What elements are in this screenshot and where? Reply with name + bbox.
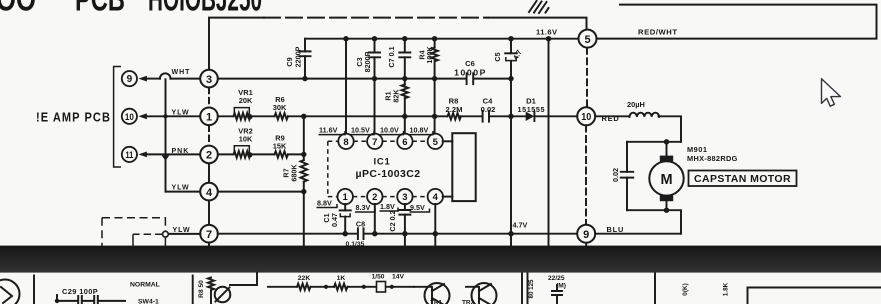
svg-text:NORMAL: NORMAL	[130, 282, 160, 289]
capacitor 1/50	[372, 274, 405, 293]
potentiometer VR1 20K	[234, 88, 253, 120]
svg-text:C7 0.1: C7 0.1	[387, 46, 396, 67]
capacitor C5 4.7	[493, 39, 524, 246]
resistor R9 15K	[273, 134, 288, 158]
svg-text:2.2M: 2.2M	[446, 105, 463, 114]
svg-text:1: 1	[343, 192, 349, 203]
wire to upper section	[230, 273, 257, 285]
wire: node-4 YLW stub	[166, 184, 201, 191]
svg-text:7: 7	[372, 137, 377, 148]
wire YLW node1	[138, 109, 200, 119]
svg-text:100K: 100K	[425, 46, 434, 64]
svg-text:8.8V: 8.8V	[317, 199, 332, 208]
wire BLU to motor	[595, 233, 681, 235]
connector circle 11 (amp pcb)	[122, 147, 137, 162]
continuation hatch marks	[529, 1, 549, 13]
svg-text:8: 8	[343, 137, 348, 148]
svg-text:MHX-882RDG: MHX-882RDG	[687, 154, 738, 163]
wire verticals with cap 22/25	[522, 274, 566, 304]
svg-text:0.02: 0.02	[611, 168, 620, 182]
svg-text:7: 7	[206, 229, 212, 241]
resistor 1K	[334, 275, 348, 290]
wire: main column segments	[208, 88, 210, 145]
capacitor C8 0.1/35	[346, 220, 366, 248]
svg-text:3: 3	[402, 192, 407, 203]
svg-text:SW4-1: SW4-1	[138, 299, 159, 304]
svg-text:YLW: YLW	[172, 109, 190, 116]
transistor TR-B	[466, 283, 497, 304]
svg-text:1.8K: 1.8K	[723, 282, 730, 296]
capacitor C1 0.47	[322, 204, 351, 234]
svg-text:4: 4	[433, 192, 439, 203]
svg-text:15K: 15K	[273, 142, 287, 151]
svg-text:2: 2	[372, 192, 377, 203]
node circle 5 (motor conn)	[579, 30, 597, 48]
svg-text:1.8V: 1.8V	[380, 202, 395, 211]
svg-text:2: 2	[206, 150, 212, 162]
svg-text:10.0V: 10.0V	[380, 126, 399, 135]
svg-text:!E AMP PCB: !E AMP PCB	[36, 111, 111, 125]
resistor R8 50 (trimmer)	[198, 278, 230, 304]
wire terminal to node 7	[169, 233, 201, 235]
wire: top dashed feed line to node 5	[209, 18, 587, 70]
svg-text:µPC-1003C2: µPC-1003C2	[356, 168, 421, 180]
transistor TR-A	[414, 283, 450, 304]
svg-text:151555: 151555	[518, 105, 545, 114]
IC pin 3	[397, 189, 412, 204]
resistor R8 2.2M	[446, 97, 463, 120]
svg-text:9.5V: 9.5V	[410, 203, 425, 212]
dashed connector column 5-10	[586, 48, 588, 107]
wire pin4 down into lower section	[434, 204, 436, 246]
wire: node-1 horizontal line	[218, 115, 577, 117]
node circle 2	[200, 146, 218, 164]
svg-text:TR1: TR1	[430, 300, 443, 304]
svg-text:22/25: 22/25	[548, 275, 565, 282]
svg-text:4.7V: 4.7V	[513, 221, 528, 230]
svg-text:PNK: PNK	[172, 148, 190, 155]
wire motor top rail	[627, 141, 681, 143]
svg-text:1K: 1K	[337, 275, 346, 282]
wire motor bottom rail	[627, 210, 681, 234]
voltage label 10.8V pin5	[409, 126, 433, 135]
svg-text:1/50: 1/50	[372, 274, 385, 281]
svg-text:BLU: BLU	[607, 225, 625, 234]
svg-text:TR2: TR2	[462, 300, 475, 304]
wire pin5 to box	[443, 140, 453, 142]
svg-text:9: 9	[583, 229, 589, 241]
capacitor C2 0.2	[388, 204, 410, 246]
svg-text:9: 9	[127, 74, 133, 85]
node circle 3	[200, 70, 218, 88]
wire vertical	[33, 276, 35, 304]
wire RED/WHT to right edge	[597, 5, 877, 39]
svg-text:10: 10	[125, 112, 134, 122]
svg-text:14V: 14V	[392, 274, 405, 281]
inductor 20uH	[595, 100, 681, 142]
wire: YLW vertical tie	[165, 79, 167, 191]
voltage label 9.5V pin4	[410, 203, 430, 212]
node circle 4	[200, 183, 218, 201]
svg-text:10K: 10K	[239, 135, 253, 144]
svg-text:30K: 30K	[273, 103, 287, 112]
IC pin 6	[397, 134, 412, 149]
wire pin4 to box	[443, 196, 453, 198]
capacitor C7 0.1	[387, 39, 410, 85]
capacitor C3 8200P	[355, 39, 380, 134]
svg-text:680K: 680K	[290, 164, 299, 182]
capacitor C6 1000P	[454, 59, 487, 84]
svg-text:2200P: 2200P	[294, 46, 303, 67]
wire vertical	[192, 276, 194, 304]
svg-text:4: 4	[206, 187, 213, 199]
junction dots on bus	[343, 36, 551, 41]
svg-text:22K: 22K	[298, 275, 311, 282]
node circle 9 (motor conn)	[577, 225, 595, 243]
svg-text:WHT: WHT	[172, 69, 191, 76]
voltage label 8.8V pin1	[317, 199, 338, 208]
voltage label 10.0V pin6	[380, 126, 404, 135]
svg-text:HOIOBJ250: HOIOBJ250	[148, 0, 262, 19]
resistor R4 100K	[418, 39, 438, 134]
IC pin 1	[338, 189, 353, 204]
wire: node-4 line to R7 foot	[218, 191, 304, 193]
voltage label 1.8V pin3	[380, 202, 399, 211]
node circle 7	[200, 225, 218, 243]
node circle 10 (motor conn)	[577, 107, 595, 125]
svg-text:5: 5	[433, 137, 439, 148]
node circle 1	[200, 108, 218, 126]
svg-text:10.8V: 10.8V	[410, 126, 429, 135]
svg-text:5: 5	[584, 34, 590, 46]
IC pin 5	[428, 134, 443, 149]
IC pin 4	[428, 189, 443, 204]
svg-text:C8: C8	[356, 220, 365, 229]
svg-text:10.5V: 10.5V	[351, 126, 370, 135]
svg-text:8200P: 8200P	[363, 51, 372, 72]
svg-text:0(K): 0(K)	[682, 283, 689, 295]
wire: node-2 horizontal line	[218, 153, 304, 155]
svg-text:M: M	[660, 172, 672, 188]
svg-text:C29 100P: C29 100P	[62, 287, 98, 296]
svg-text:OO: OO	[0, 0, 36, 19]
svg-text:M901: M901	[687, 145, 708, 154]
diode D1 151555	[518, 97, 545, 122]
svg-text:11: 11	[125, 150, 133, 160]
svg-text:11.6V: 11.6V	[536, 28, 558, 37]
svg-text:11.6V: 11.6V	[319, 126, 338, 135]
left connector bracket	[114, 67, 121, 168]
IC1 dashed boundary	[328, 141, 428, 196]
svg-text:1: 1	[206, 112, 212, 124]
wire WHT with hop	[138, 69, 200, 82]
wire PNK with hop blob	[138, 148, 200, 161]
voltage label 8.3V pin2	[355, 203, 375, 212]
wire: 11.6V rail down into lower section	[548, 39, 550, 246]
label CAPSTAN MOTOR boxed	[689, 171, 797, 187]
svg-text:C5: C5	[493, 52, 502, 61]
wire vertical	[654, 274, 656, 304]
wire: rail from bus down to IC pin 8	[345, 39, 347, 134]
pcb outline box lower right	[748, 288, 881, 304]
svg-text:0.47: 0.47	[330, 213, 339, 227]
resistor R7 680K	[282, 116, 308, 245]
voltage label 10.5V pin7	[351, 126, 375, 135]
wire: node-3 horizontal line with C6	[218, 78, 511, 80]
capacitor C9 2200P	[285, 39, 311, 79]
voltage label 11.6V pin8	[319, 126, 346, 135]
svg-text:C2 0.2: C2 0.2	[388, 210, 397, 231]
svg-text:PCB: PCB	[75, 0, 125, 19]
wire YLW jumper to open terminal	[133, 233, 163, 235]
svg-text:R8 50: R8 50	[198, 280, 205, 298]
svg-text:1000P: 1000P	[454, 68, 487, 78]
wire: 11.6V bus	[305, 38, 578, 40]
svg-text:YLW: YLW	[172, 184, 190, 191]
svg-text:3: 3	[206, 74, 212, 86]
resistor R6 30K	[273, 95, 288, 120]
potentiometer VR2 10K	[234, 127, 253, 158]
connector dashed box lower-left	[102, 218, 166, 246]
wire: node-7 horizontal line	[218, 233, 577, 235]
svg-text:RED/WHT: RED/WHT	[638, 28, 678, 37]
dashed connector column 10-9	[585, 126, 587, 225]
mouse cursor	[822, 79, 841, 106]
IC pin 8	[338, 134, 353, 149]
resistor 22K	[297, 275, 311, 290]
resistor R1 82K	[384, 85, 408, 134]
svg-text:82K: 82K	[392, 89, 401, 103]
svg-text:6: 6	[402, 137, 407, 148]
wire lower bias row	[268, 286, 414, 288]
open terminal circle	[163, 231, 169, 237]
connector circle 10 (amp pcb)	[122, 109, 137, 124]
svg-text:4.7: 4.7	[511, 48, 524, 61]
cropped page title text	[0, 0, 262, 19]
connector circle 9 (amp pcb)	[122, 71, 137, 86]
svg-text:8.3V: 8.3V	[356, 203, 371, 212]
motor M901 capstan motor	[649, 142, 683, 210]
svg-text:IC1: IC1	[374, 156, 391, 167]
component box right of IC	[452, 133, 475, 201]
black separator bar	[0, 246, 881, 273]
IC pin 7	[367, 134, 382, 149]
capacitor C29 100P	[55, 287, 125, 304]
svg-text:20µH: 20µH	[627, 100, 645, 109]
svg-text:RED: RED	[602, 114, 620, 123]
svg-text:0.02: 0.02	[481, 105, 496, 114]
capacitor C4 0.02	[481, 97, 496, 122]
IC pin 2	[367, 189, 382, 204]
capacitor 0.02 (motor)	[611, 142, 633, 210]
transistor (partial, far left)	[0, 280, 20, 304]
svg-text:80 125: 80 125	[528, 279, 535, 298]
svg-text:CAPSTAN MOTOR: CAPSTAN MOTOR	[694, 173, 791, 185]
svg-text:20K: 20K	[239, 96, 253, 105]
svg-text:10: 10	[581, 112, 591, 123]
wire pin2 down	[374, 204, 376, 234]
